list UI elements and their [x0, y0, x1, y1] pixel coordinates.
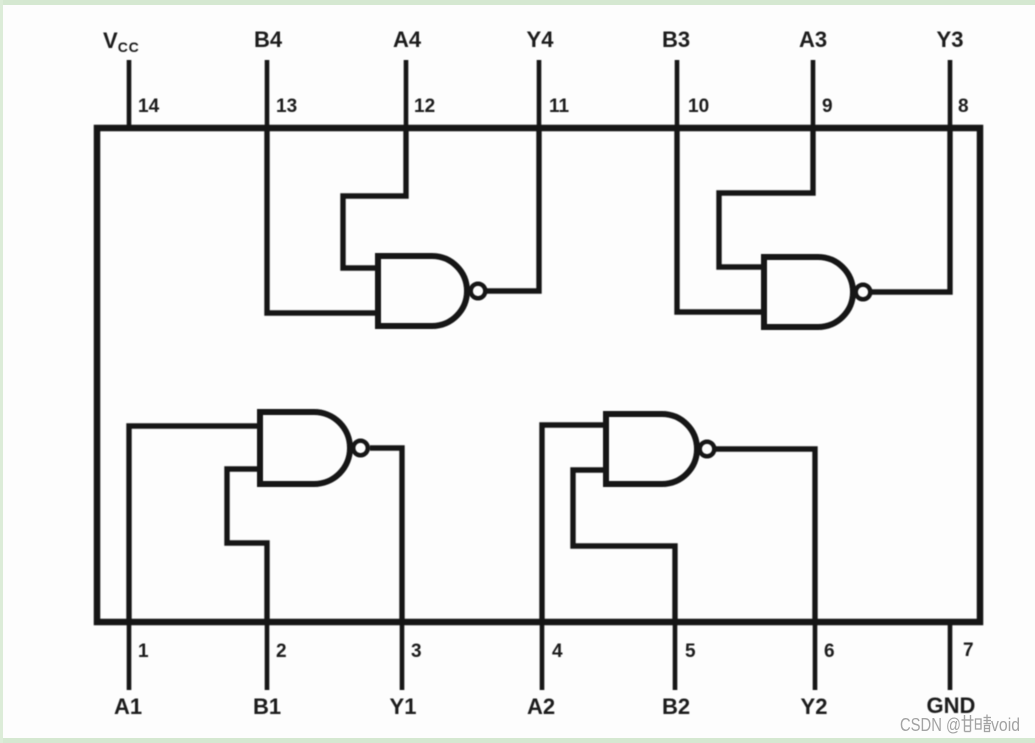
svg-text:A4: A4: [393, 27, 422, 52]
wire B1 (pin 2) to gate U1A lower input: [227, 469, 267, 625]
NAND gate U1B body (bottom-centre): [606, 414, 697, 484]
svg-text:4: 4: [552, 641, 563, 662]
svg-text:12: 12: [414, 96, 435, 117]
IC body outline: [97, 128, 980, 622]
NAND gate U1D body (top-left): [378, 256, 467, 326]
svg-text:13: 13: [276, 96, 297, 117]
NAND gate U1A body (bottom-left): [260, 412, 350, 484]
svg-text:A3: A3: [799, 27, 827, 52]
pin 14 VCC stub: [127, 60, 132, 128]
svg-text:8: 8: [958, 96, 969, 117]
svg-text:Y1: Y1: [390, 694, 417, 719]
wire A2 (pin 4) to gate U1B upper input: [542, 425, 606, 625]
svg-text:14: 14: [138, 96, 160, 117]
wire B3 (pin 10) to gate U1C lower input: [677, 125, 764, 312]
svg-text:5: 5: [685, 641, 696, 662]
svg-text:void: void: [991, 714, 1020, 735]
NAND gate U1A output bubble: [353, 441, 368, 456]
wire B4 (pin 13) to gate U1D lower input: [267, 125, 378, 313]
svg-text:Y3: Y3: [937, 27, 964, 52]
svg-text:Y2: Y2: [801, 694, 828, 719]
svg-text:1: 1: [138, 641, 149, 662]
svg-text:10: 10: [688, 96, 709, 117]
watermark glyph GAN: [962, 715, 974, 732]
svg-text:B1: B1: [253, 694, 281, 719]
wire A1 (pin 1) to gate U1A upper input: [129, 426, 260, 625]
wire Y4 (pin 11) from gate U1D output: [486, 125, 539, 291]
svg-text:7: 7: [963, 640, 974, 661]
svg-text:A1: A1: [114, 694, 142, 719]
svg-text:A2: A2: [527, 694, 555, 719]
wire Y2 (pin 6) from gate U1B output: [715, 449, 815, 625]
svg-text:2: 2: [276, 641, 287, 662]
svg-text:9: 9: [822, 96, 833, 117]
watermark glyph QING: [976, 715, 992, 732]
svg-text:B4: B4: [254, 27, 283, 52]
wire Y1 (pin 3) from gate U1A output: [370, 448, 402, 625]
wire B2 (pin 5) to gate U1B lower input: [573, 470, 675, 625]
svg-text:B2: B2: [662, 694, 690, 719]
svg-text:3: 3: [411, 641, 422, 662]
wire Y3 (pin 8) from gate U1C output: [871, 125, 950, 292]
pin 7 GND stub: [948, 622, 953, 690]
NAND gate U1D output bubble: [471, 284, 486, 299]
svg-text:B3: B3: [662, 27, 690, 52]
NAND gate U1C body (top-right): [764, 257, 853, 327]
wire A3 (pin 9) to gate U1C upper input: [719, 125, 813, 267]
svg-text:CSDN @: CSDN @: [900, 714, 961, 735]
svg-text:6: 6: [824, 641, 835, 662]
svg-text:Y4: Y4: [527, 27, 555, 52]
svg-text:11: 11: [549, 96, 570, 117]
svg-text:VCC: VCC: [103, 28, 140, 55]
NAND gate U1B output bubble: [700, 442, 715, 457]
wire A4 (pin 12) to gate U1D upper input: [343, 125, 406, 268]
NAND gate U1C output bubble: [856, 285, 871, 300]
